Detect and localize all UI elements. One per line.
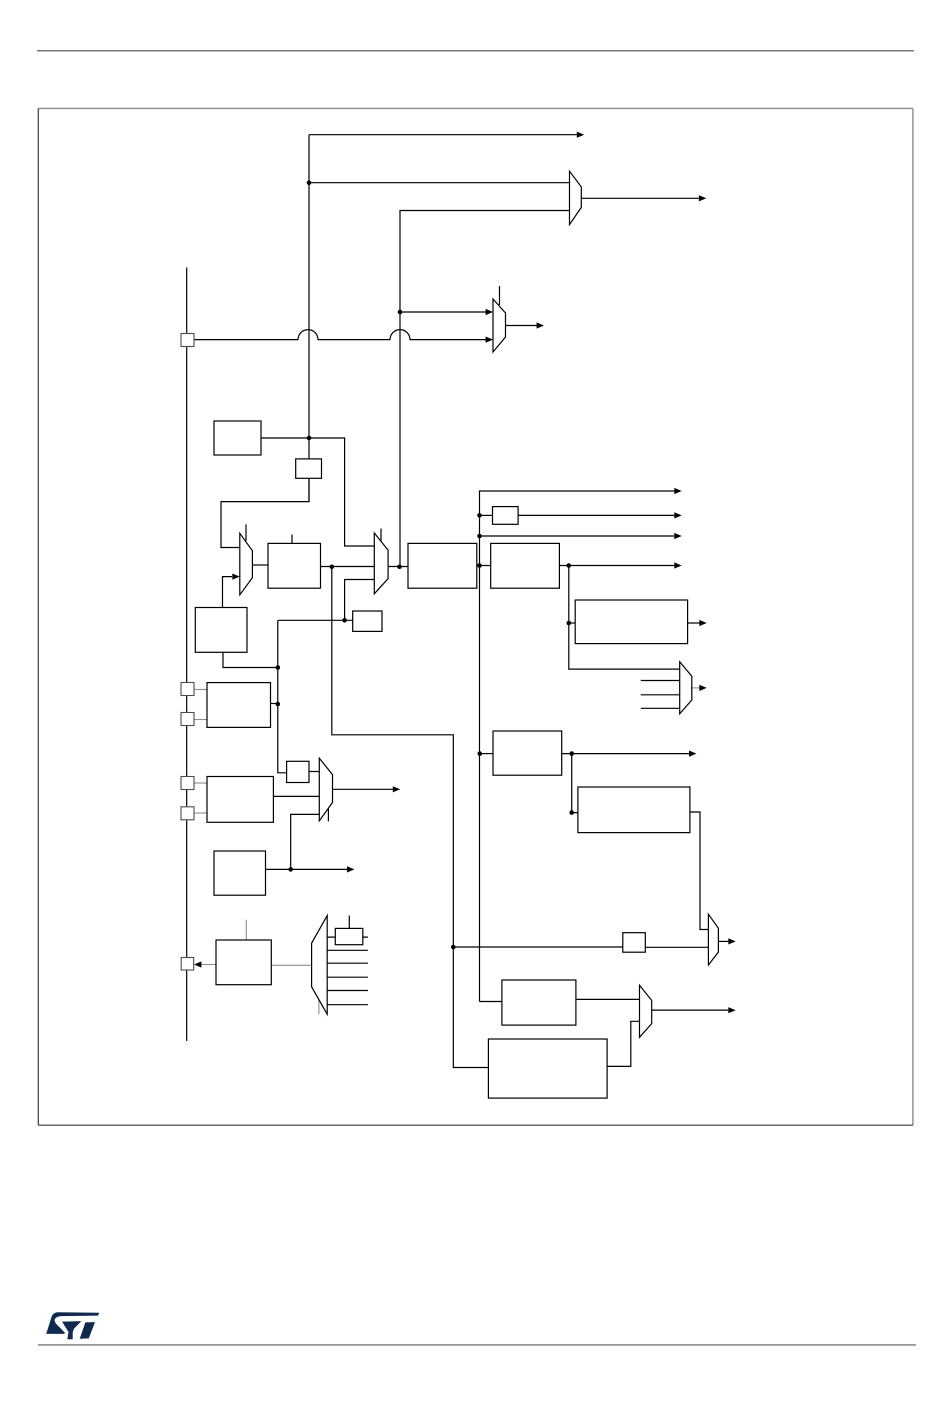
arrowhead xyxy=(674,533,681,539)
wire mux MB output xyxy=(506,325,538,327)
wire mux M2 output xyxy=(388,566,408,568)
arrowhead xyxy=(728,1007,735,1013)
wire lse line to box B5 xyxy=(278,619,353,621)
wire vertical trunk x309 xyxy=(308,135,310,502)
wire hclk trunk x479.5 with top arrow xyxy=(480,491,675,1002)
wire mux M4 input4 xyxy=(327,976,368,978)
arrowhead xyxy=(674,488,681,494)
footer rule xyxy=(38,1344,916,1346)
wire mux M5 input4 xyxy=(641,707,680,709)
wire mux M6 output xyxy=(718,940,728,942)
mux M4 xyxy=(312,916,328,1015)
wire mux M4 input6 xyxy=(327,1004,368,1006)
box B11s xyxy=(287,761,309,782)
wire box B3 to mux M1 input2 arrow xyxy=(223,577,233,608)
arrowhead xyxy=(486,309,493,315)
junction dot xyxy=(569,751,574,756)
box B14 xyxy=(502,980,576,1025)
arrowhead xyxy=(393,786,400,792)
junction dot xyxy=(567,563,572,568)
wire box B6 select stub xyxy=(291,535,293,544)
wire hclk trunk corner to box B14 xyxy=(480,1001,502,1003)
pin square P3 xyxy=(181,713,194,726)
wire mux M1 select stub xyxy=(245,524,247,541)
figure frame left xyxy=(37,108,39,1125)
box B17 xyxy=(214,851,266,895)
junction dot xyxy=(307,180,312,185)
arrowhead xyxy=(347,866,354,872)
wire mux M7 output xyxy=(652,1009,729,1011)
junction dot xyxy=(478,751,483,756)
wire mux M5 input3 xyxy=(641,694,680,696)
mux M3 xyxy=(319,758,332,821)
wire mux M0 input1 y183 xyxy=(309,182,570,184)
wire box B11s output to mux M3 input1 xyxy=(309,771,319,773)
box B7 xyxy=(408,543,477,588)
box B10 xyxy=(575,600,687,644)
box B16 xyxy=(207,777,273,823)
wire mux M2 select stub xyxy=(380,529,382,542)
junction dot xyxy=(307,436,312,441)
wire mux M3 output arrow xyxy=(333,788,394,790)
wire branch to mux M3 input3 xyxy=(291,814,320,869)
wire box B14 output to mux M7 xyxy=(576,998,640,1000)
arrowhead xyxy=(699,685,706,691)
box B11 xyxy=(493,731,562,775)
wire box B9 output arrow y565.5 xyxy=(559,565,674,567)
wire mux M5 input2 xyxy=(641,680,680,682)
wire adc line y947 left part xyxy=(453,946,623,948)
junction dot xyxy=(567,621,572,626)
wire link to box B10 xyxy=(569,622,575,624)
wire top arrow line y134 xyxy=(309,134,578,136)
wire bus with hops y339.6 xyxy=(194,330,487,340)
wire box B4 output xyxy=(271,703,278,705)
ST logo xyxy=(46,1312,99,1339)
wire box B19 select stub xyxy=(348,916,350,929)
wire mux M4 input5 xyxy=(327,990,368,992)
pin square P6 xyxy=(181,958,194,971)
wire box B1 output to mux M2 input1 xyxy=(261,438,374,546)
wire mux M4 input1 segments xyxy=(327,936,368,938)
mux M7 xyxy=(640,985,652,1037)
junction dot xyxy=(276,702,281,707)
junction dot xyxy=(276,665,281,670)
arrowhead xyxy=(699,195,706,201)
mux MB xyxy=(493,299,506,352)
wire box B12 jog to mux M6 input1 xyxy=(690,812,709,930)
wire mux M5 output line xyxy=(692,687,700,689)
arrowhead xyxy=(232,574,239,580)
arrowhead xyxy=(689,751,696,757)
pin square P5 xyxy=(181,807,194,820)
wire box B18 to pin arrow line xyxy=(200,964,216,966)
wire box B7 to box B9 xyxy=(477,565,491,567)
wire box B15 output to mux M7 input2 xyxy=(607,1021,639,1066)
wire sysclk trunk to box B15 xyxy=(332,567,489,1068)
junction dot xyxy=(477,513,482,518)
junction dot xyxy=(451,945,456,950)
arrowhead xyxy=(674,562,681,568)
arrowhead xyxy=(728,938,735,944)
arrowhead xyxy=(699,620,706,626)
wire trunk x571.7 to box B12 xyxy=(572,754,578,813)
wire mux M4 select stub xyxy=(318,1000,320,1014)
box B1 xyxy=(214,421,261,455)
mux M5 xyxy=(680,662,692,714)
box B8 xyxy=(493,507,519,525)
figure frame top xyxy=(38,107,913,109)
box B5 xyxy=(353,611,382,631)
wire left pin bus vertical x187 xyxy=(186,268,188,1042)
box B18 xyxy=(216,940,271,985)
header rule xyxy=(37,50,914,52)
wire pin connector y813 xyxy=(192,812,207,814)
wire mux M4 input2 xyxy=(327,949,368,951)
box B6 xyxy=(268,543,321,588)
wire trunk x568.8 to mux M5 xyxy=(569,566,680,670)
wire box B3 bottom link xyxy=(223,652,278,667)
pin square P2 xyxy=(181,683,194,696)
mux M2 xyxy=(374,533,388,594)
wire to box B8 xyxy=(480,514,493,516)
wire mux MB select stub xyxy=(499,286,501,305)
wire mux M0 output xyxy=(581,197,699,199)
junction dot xyxy=(342,618,347,623)
box B3 xyxy=(195,608,247,653)
box B4 xyxy=(207,683,271,728)
arrowhead xyxy=(674,512,681,518)
box B15 xyxy=(488,1039,607,1098)
box B13 xyxy=(623,933,646,953)
arrowhead left into pin P6 xyxy=(194,961,201,967)
wire mux M1 output xyxy=(252,564,268,566)
wire box B10 output arrow xyxy=(688,622,700,624)
box B12 xyxy=(578,787,690,833)
wire mux M2 input3 xyxy=(345,580,375,621)
mux M6 xyxy=(708,914,718,965)
wire box B8 output arrow xyxy=(518,514,674,516)
figure frame bottom xyxy=(38,1124,913,1126)
arrowhead xyxy=(486,337,493,343)
box B2 xyxy=(296,459,322,478)
wire box B6 output to mux M2 input2 xyxy=(321,566,375,568)
wire box B17 output arrow xyxy=(266,868,348,870)
wire to box B11 xyxy=(480,753,493,755)
pin square P1 xyxy=(181,334,194,347)
junction dot xyxy=(397,565,402,570)
wire mux M4 input3 xyxy=(327,962,368,964)
wire fclk arrow y536 xyxy=(480,535,675,537)
pin square P4 xyxy=(181,777,194,790)
wire pin connector y689.5 xyxy=(192,689,207,691)
wire box B16 output to mux M3 input2 xyxy=(273,795,319,797)
box B9 xyxy=(491,543,560,588)
junction dot xyxy=(398,310,403,315)
wire mux M3 select stub xyxy=(327,802,329,821)
junction dot xyxy=(569,810,574,815)
wire pin connector y783 xyxy=(192,782,207,784)
arrowhead xyxy=(577,132,584,138)
mux M0 xyxy=(570,171,582,224)
wire mux M0 input2 + vertical trunk x400 xyxy=(400,211,570,567)
wire arrow to mux MB input1 xyxy=(400,311,487,313)
wire vertical x278 to box B11s xyxy=(278,620,287,773)
figure frame right xyxy=(912,108,914,1125)
mux M1 xyxy=(240,533,253,595)
junction dot xyxy=(288,867,293,872)
wire box B2 to mux M1 input1 xyxy=(221,478,309,548)
box B19 xyxy=(335,928,363,944)
wire pin connector y719.5 xyxy=(192,719,207,721)
wire box B18 select stub xyxy=(245,920,247,940)
junction dot xyxy=(330,565,335,570)
wire box B18 to mux M4 output xyxy=(271,964,311,966)
wire box B11 output arrow xyxy=(562,753,690,755)
junction dot xyxy=(477,534,482,539)
arrowhead xyxy=(537,322,544,328)
wire adc line y947 right part xyxy=(645,946,708,948)
junction dot xyxy=(477,563,482,568)
